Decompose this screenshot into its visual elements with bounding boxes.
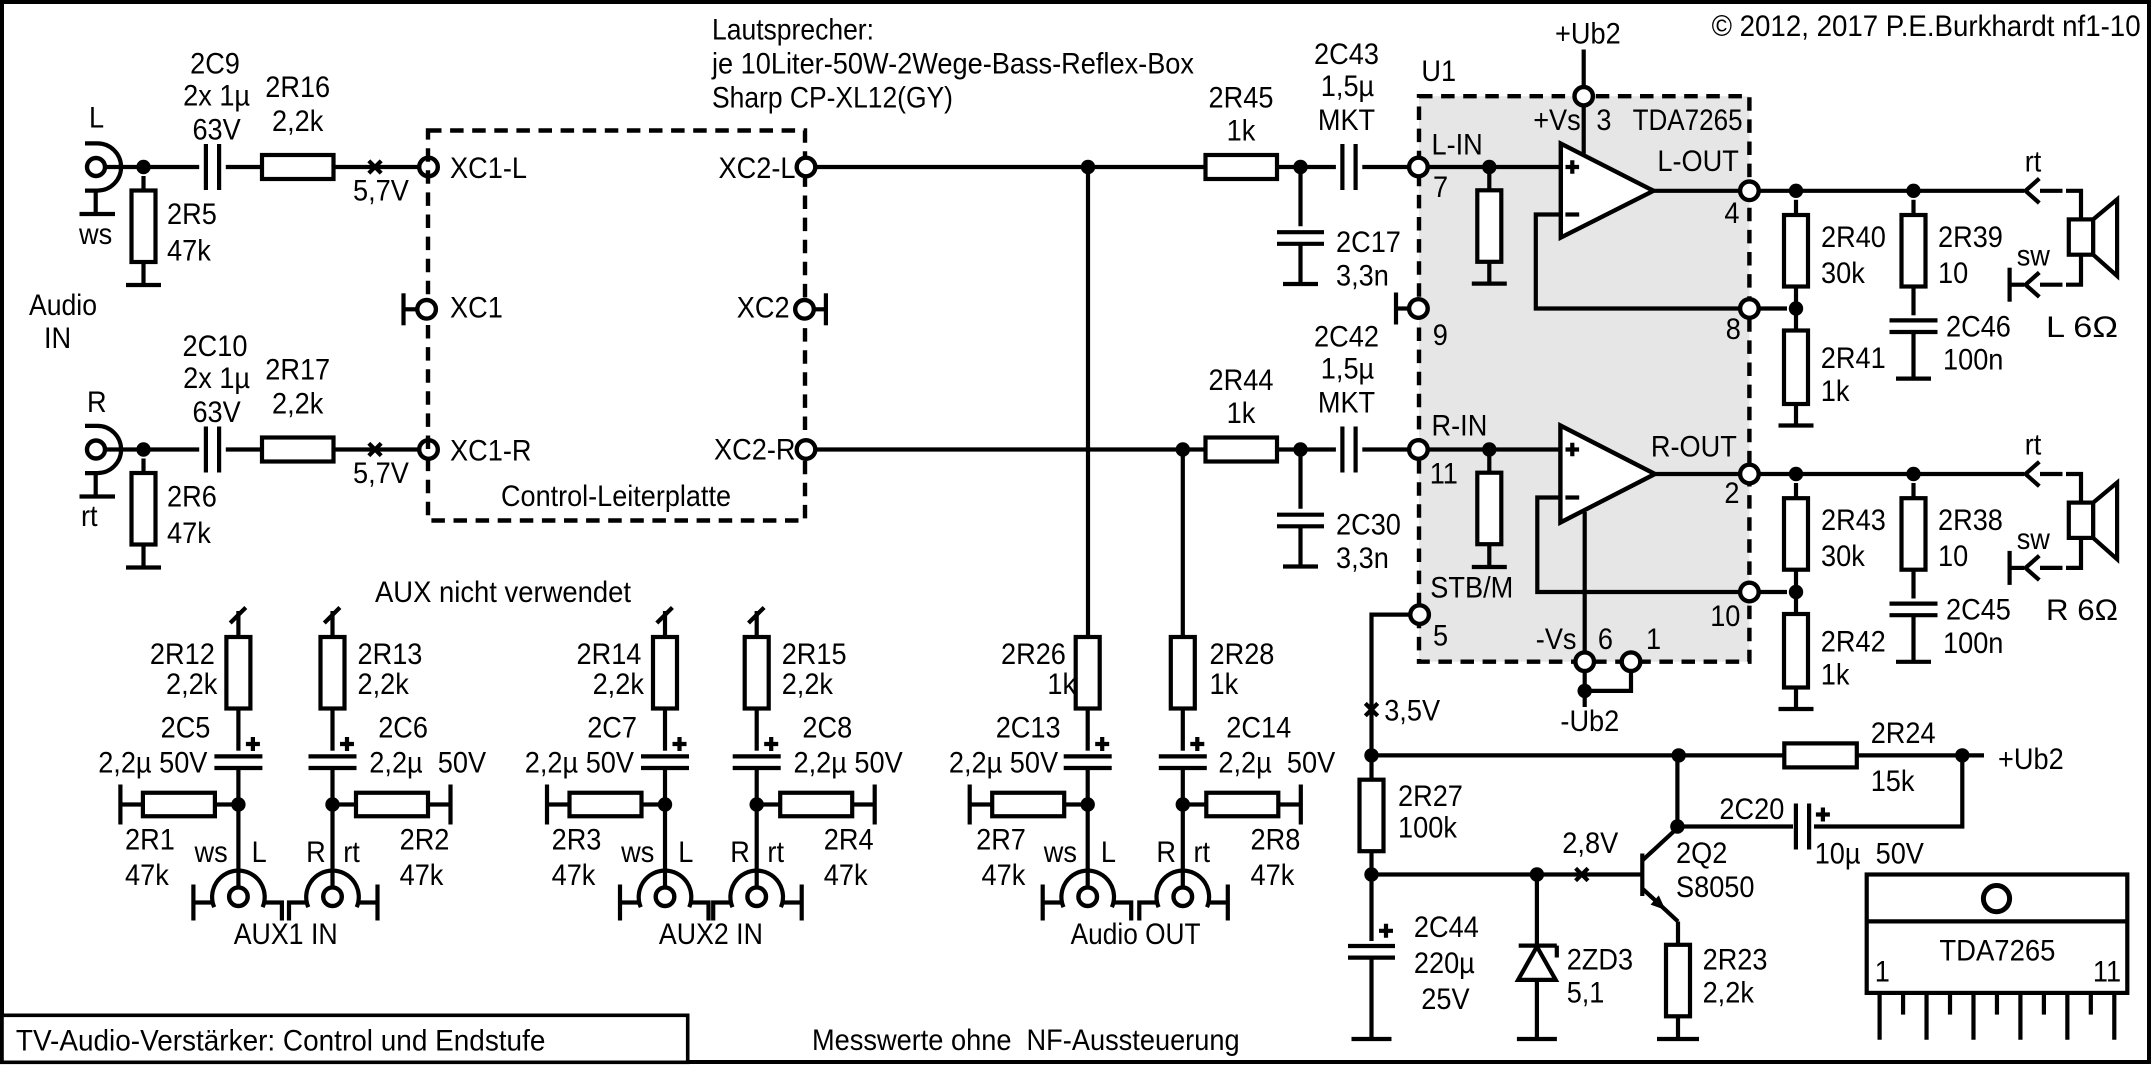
junction (1364, 748, 1378, 762)
ground (1283, 564, 1318, 568)
junction (1789, 184, 1803, 198)
test point 3,5V (1365, 703, 1377, 715)
svg-text:2R5: 2R5 (167, 198, 217, 231)
capacitor 2C9 (204, 144, 208, 190)
wire (815, 165, 1205, 169)
svg-text:1,5µ: 1,5µ (1321, 353, 1374, 386)
jack L (620, 871, 709, 921)
ground (126, 283, 161, 287)
svg-text:sw: sw (2017, 523, 2050, 556)
svg-text:30k: 30k (1821, 540, 1866, 573)
ground (1779, 423, 1814, 427)
wire (226, 165, 262, 169)
svg-text:5,7V: 5,7V (353, 457, 409, 490)
ground (1657, 1037, 1699, 1041)
svg-text:47k: 47k (1251, 859, 1296, 892)
internal resistor L (1477, 167, 1501, 284)
svg-text:2R43: 2R43 (1821, 504, 1886, 537)
junction (1293, 160, 1307, 174)
pin 5 STB/M (1410, 605, 1429, 624)
resistor 2R8 47k (1183, 785, 1301, 825)
wire (815, 447, 1205, 451)
svg-text:L: L (252, 836, 267, 869)
svg-text:2C44: 2C44 (1414, 911, 1479, 944)
wire (144, 447, 200, 451)
svg-text:2R42: 2R42 (1821, 626, 1886, 659)
open switch contact 2R15 (749, 608, 765, 638)
svg-text:2Q2: 2Q2 (1676, 837, 1727, 870)
svg-text:2,2µ 50V: 2,2µ 50V (98, 747, 207, 780)
svg-text:rt: rt (1194, 836, 1211, 869)
svg-text:1k: 1k (1821, 659, 1851, 692)
wire -Vs (1583, 512, 1587, 653)
supply +Ub2 top (1555, 18, 1621, 88)
resistor 2R1 47k (120, 785, 238, 825)
IC package TDA7265 (1867, 875, 2128, 993)
svg-text:11: 11 (2093, 956, 2121, 989)
pin 1 (1622, 652, 1641, 671)
svg-text:5: 5 (1433, 620, 1448, 653)
wire R-OUT (1655, 472, 1740, 476)
svg-text:XC1-R: XC1-R (450, 435, 532, 468)
svg-text:+Vs: +Vs (1533, 104, 1581, 137)
pin 11 R-IN (1409, 440, 1428, 459)
capacitor 2C20 10µ 50V (1796, 804, 1830, 850)
svg-text:2R3: 2R3 (552, 823, 602, 856)
pin 4 L-OUT (1740, 182, 1759, 201)
svg-text:2R27: 2R27 (1398, 780, 1463, 813)
test point 5,7V (369, 161, 381, 173)
op-amp L (1561, 144, 1654, 238)
junction +Ub2 (1955, 748, 1969, 762)
svg-text:63V: 63V (192, 396, 240, 429)
wire (334, 165, 420, 169)
wire (1857, 753, 1984, 757)
svg-text:6: 6 (1598, 623, 1613, 656)
resistor 2R2 47k (333, 785, 451, 825)
svg-text:2x 1µ: 2x 1µ (183, 362, 250, 395)
svg-text:1k: 1k (1047, 668, 1077, 701)
svg-text:100n: 100n (1943, 344, 2003, 377)
connector rt (2026, 179, 2063, 203)
svg-text:1k: 1k (1210, 668, 1240, 701)
internal resistor R (1477, 450, 1501, 568)
svg-text:rt: rt (2025, 146, 2042, 179)
svg-text:8: 8 (1726, 313, 1741, 346)
svg-text:2R45: 2R45 (1209, 82, 1274, 115)
ground (1896, 660, 1931, 664)
wire (105, 447, 144, 451)
svg-text:2R44: 2R44 (1209, 364, 1274, 397)
wire (1277, 447, 1336, 451)
wire (1277, 165, 1336, 169)
capacitor 2C7 2,2µ 50V (641, 737, 689, 805)
svg-text:9: 9 (1433, 319, 1448, 352)
svg-text:2R38: 2R38 (1938, 504, 2003, 537)
capacitor 2C44 220µ 25V (1348, 875, 1395, 1040)
svg-text:2R1: 2R1 (125, 823, 175, 856)
svg-text:2,2k: 2,2k (166, 668, 218, 701)
wire to 2R28 (1181, 450, 1185, 639)
svg-text:TV-Audio-Verstärker: Control u: TV-Audio-Verstärker: Control und Endstuf… (16, 1025, 546, 1058)
wire (105, 165, 144, 169)
resistor 2R15 2,2k (745, 637, 769, 751)
wire (226, 447, 262, 451)
svg-text:ws: ws (620, 836, 654, 869)
wire (755, 805, 759, 888)
svg-text:R: R (306, 836, 326, 869)
svg-text:2C30: 2C30 (1336, 509, 1401, 542)
svg-text:25V: 25V (1421, 983, 1469, 1016)
wire (144, 165, 200, 169)
ground (1283, 282, 1318, 286)
svg-text:2,2µ 50V: 2,2µ 50V (525, 747, 634, 780)
wire pin8/10 (1759, 590, 1787, 594)
resistor 2R23 2,2k (1666, 922, 1690, 1040)
connector sw (2010, 551, 2063, 585)
svg-text:2C13: 2C13 (996, 712, 1061, 745)
resistor 2R7 47k (970, 785, 1088, 825)
jack L (1043, 871, 1132, 921)
svg-text:2,2k: 2,2k (1703, 977, 1755, 1010)
junction (1578, 684, 1592, 698)
svg-text:2R24: 2R24 (1871, 717, 1936, 750)
svg-text:10: 10 (1938, 540, 1968, 573)
svg-text:1: 1 (1875, 956, 1890, 989)
pin 2 R-OUT (1740, 465, 1759, 484)
svg-text:2ZD3: 2ZD3 (1567, 943, 1633, 976)
wire (1583, 671, 1587, 707)
junction (1789, 585, 1803, 599)
svg-text:AUX1 IN: AUX1 IN (234, 918, 338, 951)
resistor 2R14 2,2k (653, 637, 677, 751)
svg-text:rt: rt (767, 836, 784, 869)
wire to 2R26 (1086, 167, 1090, 639)
svg-text:2R4: 2R4 (824, 823, 874, 856)
svg-text:2C10: 2C10 (183, 330, 248, 363)
wire STB/M (1372, 615, 1411, 756)
svg-text:2R40: 2R40 (1821, 221, 1886, 254)
wire rail (1372, 753, 1785, 757)
svg-text:2C7: 2C7 (587, 712, 637, 745)
svg-text:47k: 47k (167, 517, 212, 550)
wire (1814, 755, 1962, 826)
svg-text:R: R (87, 386, 107, 419)
svg-text:Audio: Audio (29, 289, 97, 322)
svg-text:L-OUT: L-OUT (1657, 145, 1739, 178)
junction (1081, 797, 1095, 811)
capacitor 2C8 2,2µ 50V (733, 737, 781, 805)
wire (2066, 538, 2081, 568)
jack L (193, 871, 282, 921)
wire (1086, 805, 1090, 888)
svg-text:L: L (1101, 836, 1116, 869)
svg-text:je 10Liter-50W-2Wege-Bass-Refl: je 10Liter-50W-2Wege-Bass-Reflex-Box (711, 48, 1194, 81)
svg-text:-Vs: -Vs (1536, 623, 1577, 656)
svg-text:2,2µ 50V: 2,2µ 50V (794, 747, 903, 780)
svg-text:2R15: 2R15 (782, 638, 847, 671)
svg-text:30k: 30k (1821, 257, 1866, 290)
ground (1472, 565, 1507, 569)
svg-text:3,3n: 3,3n (1336, 542, 1389, 575)
svg-text:XC1: XC1 (450, 292, 503, 325)
svg-text:ws: ws (1043, 836, 1077, 869)
resistor 2R41 1k (1784, 309, 1808, 426)
junction (1176, 442, 1190, 456)
svg-text:rt: rt (81, 500, 98, 533)
resistor 2R27 100k (1360, 755, 1384, 874)
IC U1 TDA7265 outline (1419, 96, 1749, 662)
svg-text:2R16: 2R16 (265, 71, 330, 104)
svg-text:-Ub2: -Ub2 (1560, 705, 1619, 738)
svg-text:47k: 47k (167, 235, 212, 268)
capacitor 2C42 1,5µ MKT (1340, 427, 1344, 473)
jack R (1139, 871, 1228, 921)
test point 5,7V (369, 443, 381, 455)
svg-text:STB/M: STB/M (1430, 572, 1513, 605)
junction (1789, 301, 1803, 315)
wire rail 2 (1372, 872, 1643, 876)
svg-text:2C45: 2C45 (1946, 594, 2011, 627)
resistor 2R16 (262, 155, 334, 179)
svg-text:2R23: 2R23 (1703, 943, 1768, 976)
pin 8 (1740, 299, 1759, 318)
svg-text:2R2: 2R2 (400, 823, 450, 856)
junction (325, 797, 339, 811)
svg-text:2,2k: 2,2k (272, 105, 324, 138)
wire (1362, 447, 1409, 451)
svg-text:10: 10 (1938, 257, 1968, 290)
svg-text:10µ 50V: 10µ 50V (1815, 838, 1924, 871)
svg-text:R: R (1156, 836, 1176, 869)
control board Control-Leiterplatte (428, 131, 805, 521)
junction (1906, 467, 1920, 481)
open switch contact 2R12 (230, 608, 246, 638)
svg-text:2C42: 2C42 (1314, 321, 1379, 354)
resistor 2R3 47k (547, 785, 665, 825)
connector sw (2010, 268, 2063, 302)
svg-text:2C20: 2C20 (1719, 793, 1784, 826)
junction (1672, 748, 1686, 762)
svg-text:4: 4 (1724, 197, 1739, 230)
wire (1585, 671, 1631, 691)
resistor 2R26 1k (1076, 637, 1100, 751)
svg-text:2,8V: 2,8V (1562, 827, 1618, 860)
svg-text:2,2µ 50V: 2,2µ 50V (1218, 747, 1335, 780)
svg-text:+Ub2: +Ub2 (1998, 743, 2064, 776)
capacitor 2C30 3,3n (1277, 450, 1324, 567)
svg-text:Audio OUT: Audio OUT (1071, 918, 1201, 951)
capacitor 2C46 100n (1890, 320, 1938, 378)
resistor 2R44 1k (1206, 438, 1278, 462)
wire (1677, 824, 1793, 828)
feedback wire R (1537, 498, 1740, 593)
svg-text:XC2-R: XC2-R (714, 434, 796, 467)
svg-text:2R6: 2R6 (167, 481, 217, 514)
svg-text:R: R (730, 836, 750, 869)
svg-text:2C9: 2C9 (190, 48, 240, 81)
title block box (2, 1015, 688, 1062)
wire (1362, 165, 1409, 169)
svg-text:S8050: S8050 (1676, 871, 1755, 904)
svg-text:Control-Leiterplatte: Control-Leiterplatte (501, 480, 731, 513)
wire (1428, 165, 1561, 169)
svg-text:2,2µ 50V: 2,2µ 50V (369, 747, 486, 780)
capacitor 2C17 3,3n (1277, 167, 1324, 284)
svg-text:2,2k: 2,2k (358, 668, 410, 701)
speaker L 6Ω (2069, 199, 2117, 276)
svg-text:+Ub2: +Ub2 (1555, 18, 1621, 51)
svg-text:2C46: 2C46 (1946, 311, 2011, 344)
svg-text:2R26: 2R26 (1001, 638, 1066, 671)
svg-text:15k: 15k (1871, 765, 1916, 798)
svg-text:XC2-L: XC2-L (719, 152, 796, 185)
svg-text:100n: 100n (1943, 627, 2003, 660)
wire (2066, 191, 2081, 220)
svg-text:2R39: 2R39 (1938, 221, 2003, 254)
svg-text:AUX2 IN: AUX2 IN (659, 918, 763, 951)
resistor 2R42 1k (1784, 592, 1808, 709)
svg-text:2C17: 2C17 (1336, 226, 1401, 259)
resistor 2R13 2,2k (321, 637, 345, 751)
feedback wire L (1536, 215, 1740, 309)
junction (1482, 160, 1496, 174)
svg-text:2R7: 2R7 (976, 823, 1026, 856)
wire collector (1675, 755, 1679, 826)
jack Audio IN R (80, 426, 122, 497)
resistor 2R6 (132, 459, 156, 568)
terminal XC1-L (419, 158, 438, 177)
junction (1670, 819, 1684, 833)
junction (1293, 442, 1307, 456)
svg-text:2,2µ 50V: 2,2µ 50V (949, 747, 1058, 780)
capacitor 2C6 2,2µ 50V (309, 737, 357, 805)
wire (1428, 447, 1561, 451)
resistor 2R24 15k (1784, 743, 1857, 767)
capacitor 2C43 1,5µ MKT (1340, 144, 1344, 190)
svg-text:1,5µ: 1,5µ (1321, 70, 1374, 103)
svg-text:L: L (89, 102, 104, 135)
svg-text:11: 11 (1430, 457, 1458, 490)
svg-text:2C5: 2C5 (161, 712, 211, 745)
ground (1517, 1037, 1557, 1041)
package pins (1880, 993, 2115, 1040)
pin 3 +Vs (1575, 87, 1593, 105)
svg-text:sw: sw (2017, 240, 2050, 273)
resistor 2R28 1k (1171, 637, 1195, 751)
junction (231, 797, 245, 811)
junction (1176, 797, 1190, 811)
jack R (289, 871, 378, 921)
ground (1472, 282, 1507, 286)
capacitor 2C13 2,2µ 50V (1064, 737, 1112, 805)
resistor 2R5 (132, 176, 156, 285)
svg-text:63V: 63V (192, 114, 240, 147)
svg-text:47k: 47k (400, 859, 445, 892)
svg-text:1k: 1k (1227, 397, 1257, 430)
svg-text:7: 7 (1433, 171, 1448, 204)
jack Audio IN L (80, 143, 122, 214)
svg-text:R-OUT: R-OUT (1651, 431, 1737, 464)
pin 7 L-IN (1409, 158, 1428, 177)
svg-text:1k: 1k (1227, 115, 1257, 148)
resistor 2R39 10 (1902, 200, 1926, 315)
terminal XC1 (404, 293, 436, 325)
svg-text:IN: IN (44, 322, 71, 355)
svg-text:L: L (678, 836, 693, 869)
pin 6 -Vs (1575, 652, 1594, 671)
svg-text:2C43: 2C43 (1314, 38, 1379, 71)
wire (236, 805, 240, 888)
junction (1081, 160, 1095, 174)
resistor 2R17 (262, 438, 334, 462)
svg-text:47k: 47k (982, 859, 1027, 892)
svg-text:2R14: 2R14 (577, 638, 642, 671)
wire (334, 447, 420, 451)
svg-text:2R41: 2R41 (1821, 342, 1886, 375)
wire L-OUT (1654, 189, 1741, 193)
capacitor 2C14 2,2µ 50V (1159, 737, 1207, 805)
svg-text:5,7V: 5,7V (353, 175, 409, 208)
svg-text:10: 10 (1710, 600, 1740, 633)
svg-text:XC1-L: XC1-L (450, 152, 527, 185)
wire (2066, 255, 2081, 285)
svg-text:ws: ws (78, 218, 112, 251)
svg-text:1k: 1k (1821, 375, 1851, 408)
wire (663, 805, 667, 888)
svg-text:47k: 47k (552, 859, 597, 892)
wire (1759, 472, 2024, 476)
svg-text:3: 3 (1596, 104, 1611, 137)
junction (136, 160, 150, 174)
junction (1906, 184, 1920, 198)
resistor 2R43 30k (1784, 483, 1808, 592)
junction (1482, 442, 1496, 456)
svg-text:rt: rt (2025, 429, 2042, 462)
transistor 2Q2 S8050 (1642, 828, 1678, 922)
svg-text:R-IN: R-IN (1432, 409, 1488, 442)
svg-text:MKT: MKT (1318, 387, 1375, 420)
wire (1181, 805, 1185, 888)
svg-text:2,2k: 2,2k (272, 388, 324, 421)
capacitor 2C45 100n (1890, 604, 1938, 662)
svg-text:2x 1µ: 2x 1µ (183, 80, 250, 113)
wire (1582, 105, 1586, 155)
svg-text:2R17: 2R17 (265, 354, 330, 387)
svg-text:Lautsprecher:: Lautsprecher: (712, 14, 874, 47)
open switch contact 2R13 (324, 608, 340, 638)
svg-text:TDA7265: TDA7265 (1939, 935, 2055, 968)
resistor 2R12 2,2k (226, 637, 250, 751)
capacitor 2C10 (204, 427, 208, 473)
svg-text:2,2k: 2,2k (782, 668, 834, 701)
junction (1530, 867, 1544, 881)
svg-text:2R13: 2R13 (358, 638, 423, 671)
svg-text:2R8: 2R8 (1251, 823, 1301, 856)
ground (1896, 377, 1931, 381)
pin 10 (1740, 583, 1759, 602)
svg-text:220µ: 220µ (1414, 947, 1475, 980)
svg-text:Messwerte ohne NF-Aussteuerun: Messwerte ohne NF-Aussteuerung (812, 1024, 1240, 1057)
svg-text:2C6: 2C6 (378, 712, 428, 745)
op-amp R (1560, 426, 1655, 523)
wire pin8/10 (1759, 306, 1787, 310)
svg-text:1: 1 (1646, 623, 1661, 656)
connector rt (2026, 462, 2063, 486)
zener diode 2ZD3 5,1 (1518, 875, 1557, 1040)
svg-text:2: 2 (1724, 477, 1739, 510)
svg-text:AUX nicht verwendet: AUX nicht verwendet (375, 576, 632, 609)
